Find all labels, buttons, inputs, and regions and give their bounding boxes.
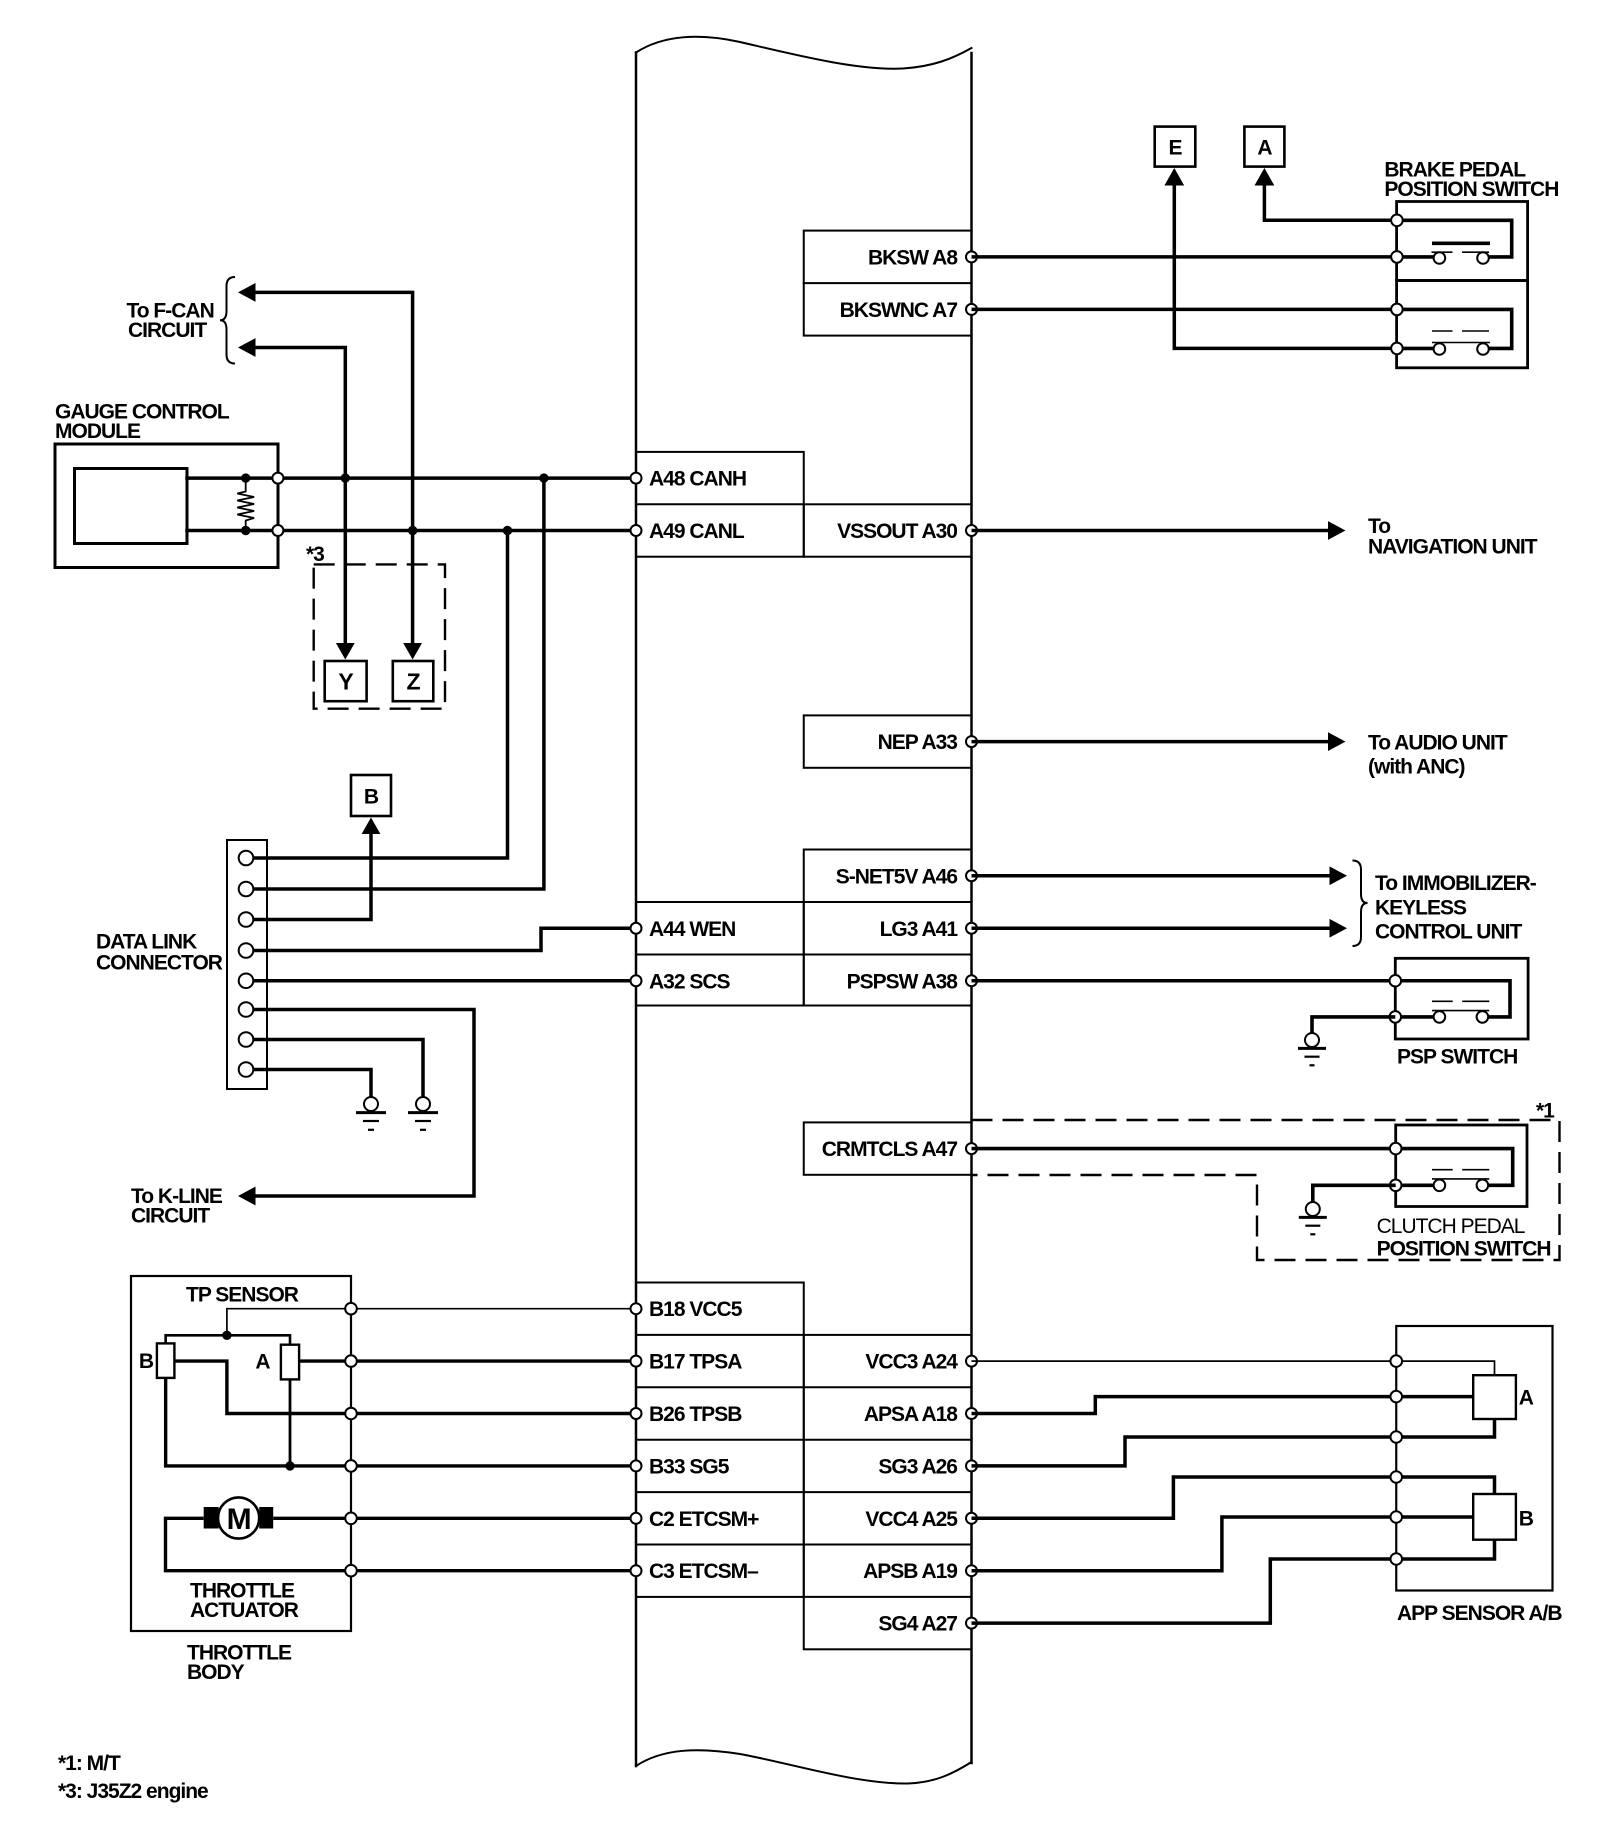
wire NEP A33 to audio — [972, 740, 1330, 744]
brake pedal position switch lower box — [1397, 281, 1528, 368]
connector Z box — [393, 661, 434, 701]
arrowhead into A — [1255, 168, 1275, 186]
terminal C2 — [631, 1513, 642, 1524]
wire DLC pin7 to ground — [250, 1040, 423, 1098]
svg-text:A32 SCS: A32 SCS — [649, 970, 731, 993]
wire DLC pin2 to CANH — [250, 478, 544, 889]
svg-text:VCC4 A25: VCC4 A25 — [865, 1508, 958, 1531]
wire CRMTCLS A47 — [972, 1147, 1396, 1151]
DLC pin 3 — [239, 912, 254, 927]
arrowhead into Y — [336, 643, 355, 660]
brace immobilizer — [1353, 861, 1368, 947]
connector E box — [1155, 127, 1196, 167]
svg-text:B18 VCC5: B18 VCC5 — [649, 1298, 743, 1321]
svg-text:C3 ETCSM–: C3 ETCSM– — [649, 1560, 759, 1583]
svg-text:NEP A33: NEP A33 — [878, 731, 958, 754]
svg-text:SG3 A26: SG3 A26 — [878, 1455, 957, 1478]
junction B18 bus — [222, 1331, 231, 1340]
svg-text:BODY: BODY — [187, 1661, 245, 1684]
PSP switch internals — [1395, 981, 1510, 1023]
wire PSPSW A38 — [972, 979, 1396, 983]
terminal A33 — [966, 736, 977, 747]
svg-text:NAVIGATION UNIT: NAVIGATION UNIT — [1368, 536, 1538, 559]
DLC pin 8 — [239, 1062, 254, 1077]
terminal B18 — [631, 1303, 642, 1314]
ECM left edge terminals — [631, 473, 642, 1577]
svg-text:A: A — [1519, 1387, 1534, 1410]
svg-text:PSP SWITCH: PSP SWITCH — [1397, 1046, 1517, 1069]
pin box group BKSW/BKSWNC — [804, 231, 972, 336]
arrowhead LG3 — [1330, 919, 1348, 938]
svg-text:CRMTCLS A47: CRMTCLS A47 — [822, 1138, 958, 1161]
terminal A25 — [966, 1513, 977, 1524]
gauge control module inner box — [75, 469, 188, 544]
PSP switch box — [1395, 958, 1528, 1039]
svg-text:DATA LINK: DATA LINK — [96, 931, 197, 954]
terminal TB B26 — [345, 1408, 357, 1420]
terminal A24 — [966, 1356, 977, 1367]
ground G4 (clutch) — [1299, 1202, 1327, 1234]
terminal TB B33 — [345, 1460, 357, 1472]
ECM/PCM ribbon torn bottom edge — [636, 1750, 972, 1783]
svg-text:B17 TPSA: B17 TPSA — [649, 1351, 742, 1374]
arrowhead To K-LINE — [238, 1187, 256, 1206]
resistor in gauge control module — [237, 478, 254, 530]
wire A48 CANH (GCM to ECM) — [187, 476, 636, 480]
TP resistor A ground lead — [289, 1379, 292, 1466]
svg-text:PSPSW A38: PSPSW A38 — [847, 970, 959, 993]
terminal A46 — [966, 870, 977, 881]
svg-text:VSSOUT A30: VSSOUT A30 — [837, 520, 957, 543]
junction dots on CAN lines — [241, 473, 549, 535]
svg-text:*1: M/T: *1: M/T — [58, 1752, 121, 1775]
clutch switch internals — [1396, 1149, 1513, 1192]
svg-text:KEYLESS: KEYLESS — [1375, 897, 1467, 920]
pin box VSSOUT A30 — [804, 504, 972, 556]
wire B26 TPSB — [174, 1361, 636, 1413]
wire F-CAN line 1 (CANL to Z) — [254, 292, 413, 646]
wire VCC4 A25 — [972, 1477, 1397, 1518]
pin labels left column — [649, 468, 759, 1584]
pin box CRMTCLS A47 — [804, 1122, 972, 1174]
arrowhead into B — [362, 818, 381, 835]
wire SG3 A26 — [972, 1437, 1397, 1466]
wire SG4 A27 — [972, 1559, 1397, 1623]
terminal GCM CANH — [272, 473, 283, 484]
APP sensor terminals — [1390, 1355, 1402, 1565]
brace F-CAN — [220, 277, 235, 364]
svg-text:Y: Y — [338, 669, 353, 695]
svg-text:BKSWNC A7: BKSWNC A7 — [840, 299, 958, 322]
wire B33 SG5 — [166, 1378, 636, 1466]
svg-text:CIRCUIT: CIRCUIT — [131, 1205, 210, 1228]
APP sensor B internals — [1396, 1477, 1516, 1559]
terminal TB C3 — [345, 1565, 357, 1577]
terminal B17 — [631, 1356, 642, 1367]
terminal A38 — [966, 975, 977, 986]
junction CANH / DLC pin2 line — [539, 473, 548, 482]
junction CANH / Y line — [341, 473, 350, 482]
pin box group VCC3..SG4 — [804, 1335, 972, 1649]
terminal A30 — [966, 525, 977, 536]
data link connector box — [227, 840, 267, 1089]
terminal A8 — [966, 251, 977, 262]
terminal A32 — [631, 975, 642, 986]
connector A box — [1244, 127, 1284, 167]
arrowhead to audio — [1328, 732, 1346, 751]
DLC pin circles — [239, 851, 254, 1077]
pin labels right column — [822, 246, 959, 1635]
PSP ground wire — [1312, 1017, 1395, 1033]
wire DLC pin6 to K-LINE — [250, 1010, 474, 1197]
TP resistor B — [157, 1343, 175, 1378]
junction CANH / GCM resistor — [241, 473, 250, 482]
wire VCC3 A24 (thin) — [972, 1360, 1397, 1362]
arrowhead S-NET5V — [1330, 866, 1348, 885]
wires: left area — [187, 292, 636, 1196]
wire BKSWNC A7 — [972, 308, 1397, 312]
terminal A18 — [966, 1408, 977, 1419]
terminal A41 — [966, 923, 977, 934]
terminal A44 — [631, 923, 642, 934]
arrowhead F-CAN 1 — [238, 283, 256, 302]
svg-text:To AUDIO UNIT: To AUDIO UNIT — [1368, 732, 1508, 755]
dashed box *3 — [314, 564, 445, 708]
throttle body edge terminals — [345, 1303, 357, 1577]
svg-text:A44 WEN: A44 WEN — [649, 918, 735, 941]
terminal B26 — [631, 1408, 642, 1419]
wire LG3 A41 to immobilizer — [972, 927, 1331, 931]
svg-text:APP SENSOR A/B: APP SENSOR A/B — [1397, 1602, 1562, 1625]
wire DLC pin4 to A44 WEN — [250, 928, 636, 950]
DLC pin 6 — [239, 1002, 254, 1017]
pin box group A44/A32 — [636, 902, 804, 1006]
wire C2 ETCSM+ — [273, 1517, 636, 1520]
brake switch 2 internals — [1397, 309, 1512, 354]
svg-text:BKSW A8: BKSW A8 — [868, 246, 958, 269]
svg-text:Z: Z — [406, 669, 420, 695]
dashed M/T region — [972, 1120, 1560, 1260]
wire S-NET5V A46 to immobilizer — [972, 874, 1331, 878]
clutch ground wire — [1313, 1185, 1396, 1202]
svg-text:APSA A18: APSA A18 — [864, 1403, 958, 1426]
svg-text:CONNECTOR: CONNECTOR — [96, 952, 223, 975]
gauge control module outer box — [55, 444, 278, 568]
svg-text:A49 CANL: A49 CANL — [649, 520, 745, 543]
terminal A26 — [966, 1460, 977, 1471]
svg-text:*3: J35Z2 engine: *3: J35Z2 engine — [58, 1780, 208, 1803]
terminal TB C2 — [345, 1513, 357, 1525]
junction SG5 — [285, 1461, 294, 1470]
brake switch terminals — [1391, 215, 1403, 355]
terminal TB B18 — [345, 1303, 357, 1315]
junction CANL / Z line — [408, 526, 417, 535]
ECM/PCM ribbon left edge — [635, 53, 638, 1767]
brake switch 1 internals — [1397, 220, 1512, 263]
wire C3 ETCSM- — [166, 1518, 637, 1570]
svg-text:To IMMOBILIZER-: To IMMOBILIZER- — [1375, 872, 1537, 895]
DLC pin 1 — [239, 851, 254, 866]
DLC pin 7 — [239, 1032, 254, 1047]
terminal A48 — [631, 473, 642, 484]
wire DLC pin8 to ground — [250, 1070, 371, 1098]
terminal TB B17 — [345, 1355, 357, 1367]
wire A49 CANL (GCM to ECM) — [187, 529, 636, 533]
svg-text:MODULE: MODULE — [55, 420, 141, 443]
arrowhead into E — [1164, 168, 1184, 186]
svg-text:B26 TPSB: B26 TPSB — [649, 1403, 742, 1426]
terminal B33 — [631, 1460, 642, 1471]
arrowhead to navigation — [1328, 521, 1346, 540]
terminal A27 — [966, 1618, 977, 1629]
svg-text:(with ANC): (with ANC) — [1368, 756, 1465, 779]
ground G3 (PSP) — [1298, 1033, 1326, 1065]
wire A to brake switch upper contact — [1264, 183, 1397, 220]
ECM/PCM ribbon right edge — [970, 53, 973, 1763]
ground G1 (DLC pin8) — [356, 1097, 386, 1130]
PSP switch terminals — [1390, 975, 1402, 987]
terminal GCM CANL — [272, 525, 283, 536]
throttle actuator motor — [204, 1497, 274, 1538]
brake pedal position switch upper box — [1397, 202, 1528, 281]
pin box group B18..C3 — [636, 1283, 804, 1597]
junction CANL / DLC pin1 line — [503, 526, 512, 535]
terminal A47 — [966, 1143, 977, 1154]
svg-text:B: B — [364, 786, 379, 809]
svg-text:CONTROL UNIT: CONTROL UNIT — [1375, 921, 1522, 944]
svg-text:POSITION SWITCH: POSITION SWITCH — [1384, 178, 1558, 201]
terminal A7 — [966, 304, 977, 315]
wire VSSOUT A30 to navigation — [972, 529, 1330, 533]
wire DLC pin3 to connector B — [250, 830, 371, 920]
terminal C3 — [631, 1565, 642, 1576]
pin box NEP A33 — [804, 715, 972, 767]
svg-text:A48 CANH: A48 CANH — [649, 468, 746, 491]
wire DLC pin1 to CANL — [250, 531, 508, 859]
svg-text:LG3 A41: LG3 A41 — [880, 918, 959, 941]
wire APSA A18 — [972, 1397, 1397, 1414]
svg-text:VCC3 A24: VCC3 A24 — [865, 1351, 958, 1374]
TP sensor supply bus — [166, 1335, 290, 1344]
svg-text:*3: *3 — [306, 543, 324, 566]
svg-text:APSB A19: APSB A19 — [863, 1560, 957, 1583]
wire DLC pin5 to A32 SCS — [250, 979, 636, 983]
svg-text:TP SENSOR: TP SENSOR — [186, 1284, 299, 1307]
terminal A49 — [631, 525, 642, 536]
svg-text:M: M — [227, 1503, 251, 1536]
arrowhead F-CAN 2 — [238, 338, 256, 357]
svg-text:B33 SG5: B33 SG5 — [649, 1455, 730, 1478]
APP sensor outer box — [1396, 1326, 1552, 1591]
APP sensor A internals — [1396, 1361, 1516, 1437]
arrowhead into Z — [403, 643, 422, 660]
svg-text:E: E — [1168, 137, 1182, 160]
connector Y box — [325, 661, 367, 701]
DLC pin 5 — [239, 973, 254, 988]
ECM right edge terminals — [966, 251, 977, 1628]
wire F-CAN line 2 (CANH to Y) — [254, 348, 345, 647]
svg-text:CLUTCH PEDAL: CLUTCH PEDAL — [1377, 1215, 1525, 1238]
ground G2 (DLC pin7) — [408, 1097, 438, 1130]
wire APSB A19 — [972, 1517, 1397, 1571]
TP resistor A — [281, 1345, 299, 1380]
DLC pin 4 — [239, 943, 254, 958]
wire B17 TPSA — [299, 1359, 636, 1362]
terminal A19 — [966, 1565, 977, 1576]
DLC pin 2 — [239, 882, 254, 897]
wire BKSW A8 — [972, 255, 1397, 259]
pin box group S-NET5V/LG3/PSPSW — [804, 850, 972, 1006]
clutch pedal position switch box — [1396, 1125, 1527, 1207]
svg-text:C2 ETCSM+: C2 ETCSM+ — [649, 1508, 759, 1531]
junction CANL / GCM resistor — [241, 526, 250, 535]
svg-text:A: A — [255, 1351, 270, 1374]
clutch switch terminals — [1390, 1143, 1402, 1155]
throttle body box — [131, 1276, 351, 1631]
svg-text:ACTUATOR: ACTUATOR — [190, 1599, 299, 1622]
svg-text:S-NET5V A46: S-NET5V A46 — [836, 865, 958, 888]
svg-text:CIRCUIT: CIRCUIT — [128, 319, 207, 342]
wire E to brake switch lower contact — [1174, 183, 1397, 348]
svg-text:B: B — [1519, 1508, 1534, 1531]
svg-text:POSITION SWITCH: POSITION SWITCH — [1377, 1238, 1551, 1261]
svg-text:SG4 A27: SG4 A27 — [878, 1613, 957, 1636]
wire B18 VCC5 (thin) — [227, 1309, 636, 1336]
svg-text:A: A — [1257, 137, 1272, 160]
pin box group A48/A49 — [636, 452, 804, 557]
connector B box — [351, 775, 391, 816]
ECM/PCM ribbon torn top edge — [636, 37, 972, 69]
svg-text:B: B — [139, 1350, 154, 1373]
